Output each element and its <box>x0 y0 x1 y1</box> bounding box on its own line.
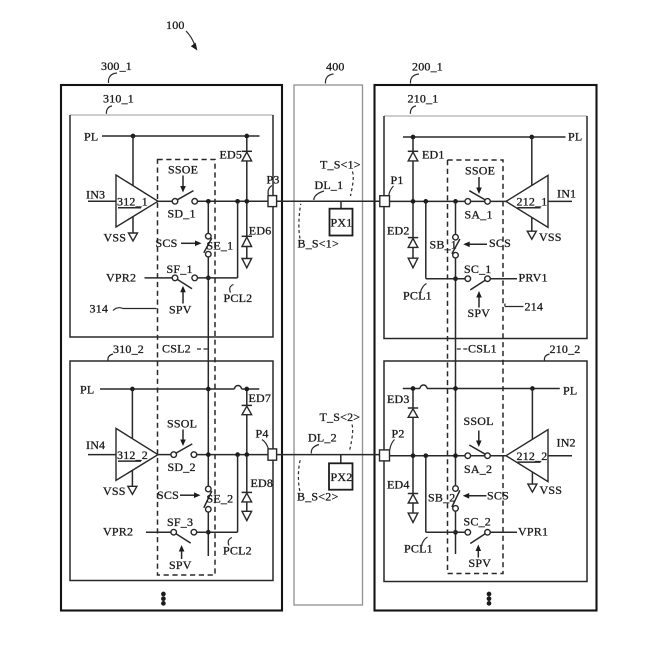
svg-text:PCL1: PCL1 <box>403 288 432 302</box>
svg-text:SD_1: SD_1 <box>168 207 196 221</box>
svg-text:SSOL: SSOL <box>167 417 197 431</box>
wire amp output to SD_2 <box>158 454 171 456</box>
wire amp supply (212_2) <box>531 389 533 440</box>
svg-text:PCL2: PCL2 <box>224 291 253 305</box>
svg-text:300_1: 300_1 <box>101 59 132 73</box>
wire amp output to SD_1 <box>158 200 172 202</box>
diode ED1 <box>412 139 414 151</box>
wire VSS of 312_2 <box>131 470 133 486</box>
diode ED8 <box>246 457 248 492</box>
diode ED6 <box>246 204 248 237</box>
svg-text:DL_2: DL_2 <box>308 431 337 445</box>
svg-text:PX2: PX2 <box>331 470 353 484</box>
wire P1 to SA_1 <box>390 200 465 202</box>
wire IN4 input <box>88 454 116 456</box>
svg-text:SA_1: SA_1 <box>465 207 493 221</box>
op-amp 212_1 <box>506 175 548 227</box>
arrow SSOE to SD_1 <box>182 176 184 189</box>
svg-text:CSL1: CSL1 <box>468 342 497 356</box>
svg-text:IN4: IN4 <box>86 438 105 452</box>
switch SD_2 <box>171 452 177 458</box>
ground VSS (210_1) <box>527 231 536 239</box>
leader for 210_1 <box>410 106 416 114</box>
wire DL_2 <box>277 454 380 456</box>
svg-text:VSS: VSS <box>104 231 127 245</box>
ellipsis right <box>487 592 492 597</box>
terminal arrow below ED2 <box>408 258 418 268</box>
wire SD_2 to P4 <box>197 454 268 456</box>
svg-text:SB_1: SB_1 <box>430 238 457 252</box>
svg-text:PCL2: PCL2 <box>223 544 252 558</box>
wire amp 312_1 supply <box>132 136 134 186</box>
svg-text:310_2: 310_2 <box>113 342 144 356</box>
wire PCL1 to SC_1 <box>426 278 465 280</box>
switch SA_1 <box>465 199 471 205</box>
terminal arrow below ED6 <box>242 259 252 268</box>
svg-text:400: 400 <box>326 60 345 74</box>
svg-text:IN1: IN1 <box>557 186 576 200</box>
arrow SCS to SE_1 <box>181 242 197 244</box>
switch SC_2 <box>465 530 471 536</box>
svg-text:PX1: PX1 <box>331 216 353 230</box>
svg-text:312_1: 312_1 <box>117 195 148 209</box>
wire IN1 input <box>548 200 572 202</box>
svg-text:ED1: ED1 <box>422 147 445 161</box>
junction main/CSL1 <box>453 199 458 204</box>
wire PCL2 riser to main2 <box>237 455 239 532</box>
wire IN2 input <box>548 455 572 457</box>
arrow SCS to SB_1 <box>468 243 488 245</box>
svg-text:212_2: 212_2 <box>517 449 548 463</box>
label CSL1 <box>457 348 468 350</box>
leader for 200_1 <box>410 74 419 84</box>
arrow SSOE to SA_1 <box>478 177 480 190</box>
svg-text:T_S<2>: T_S<2> <box>320 410 361 424</box>
svg-text:SSOE: SSOE <box>465 164 495 178</box>
svg-text:310_1: 310_1 <box>103 92 134 106</box>
wire DL_1 <box>277 200 380 202</box>
junction main/PCL1 <box>423 199 428 204</box>
diode ED3 <box>412 391 414 408</box>
switch SF_3 <box>171 529 177 535</box>
svg-text:SF_3: SF_3 <box>167 515 193 529</box>
arrow SPV to SF_3 <box>181 549 183 559</box>
switch SE_1 <box>206 233 212 239</box>
op-amp 212_2 <box>506 430 548 482</box>
switch SF_1 <box>172 275 178 281</box>
svg-text:VSS: VSS <box>539 230 562 244</box>
svg-text:SSOL: SSOL <box>464 414 494 428</box>
wire PL (210_1) <box>403 136 566 138</box>
wire PL (310_2) with hop at x=238 <box>100 388 235 390</box>
leader for 210_2 <box>544 354 549 361</box>
svg-text:ED2: ED2 <box>387 223 410 237</box>
svg-text:SPV: SPV <box>169 303 192 317</box>
svg-text:SCS: SCS <box>487 489 509 503</box>
wire SA_1 to amp <box>471 200 506 202</box>
svg-text:SSOE: SSOE <box>168 163 198 177</box>
ellipsis left <box>161 592 166 597</box>
wire PX2 stem <box>340 455 342 464</box>
ground VSS (310_2) <box>128 486 137 494</box>
svg-text:VPR1: VPR1 <box>518 524 548 538</box>
svg-text:SPV: SPV <box>468 306 491 320</box>
svg-text:200_1: 200_1 <box>412 60 443 74</box>
op-amp 312_1 <box>116 175 158 227</box>
wire PX1 stem <box>340 201 342 208</box>
svg-text:ED3: ED3 <box>387 392 410 406</box>
svg-text:VSS: VSS <box>540 483 563 497</box>
outer box 300_1 <box>61 85 282 611</box>
svg-text:312_2: 312_2 <box>117 448 148 462</box>
wire PL (310_1) <box>102 135 260 137</box>
svg-text:P3: P3 <box>267 173 280 187</box>
arrow SSOL to SD_2 <box>182 430 184 442</box>
svg-text:SD_2: SD_2 <box>168 460 196 474</box>
svg-text:SE_2: SE_2 <box>207 491 234 505</box>
wire P2 to SA_2 <box>390 455 465 457</box>
pixel PX2 <box>329 463 353 489</box>
ground VSS (310_1) <box>129 233 138 241</box>
svg-text:DL_1: DL_1 <box>315 178 344 192</box>
svg-text:CSL2: CSL2 <box>162 342 191 356</box>
arrow SPV to SC_2 <box>477 549 479 558</box>
junction PL/ED7 <box>244 387 249 392</box>
junction CSL1/SC_2 row <box>453 530 458 535</box>
svg-text:SCS: SCS <box>157 488 179 502</box>
svg-text:ED7: ED7 <box>249 391 272 405</box>
svg-text:P4: P4 <box>256 426 269 440</box>
svg-text:VPR2: VPR2 <box>106 270 136 284</box>
svg-text:VSS: VSS <box>103 484 126 498</box>
arrow SSOL to SA_2 <box>478 431 480 443</box>
svg-text:SCS: SCS <box>489 236 511 250</box>
svg-text:SB_2: SB_2 <box>428 491 455 505</box>
switch SE_2 <box>206 486 212 492</box>
switch SD_1 <box>172 199 178 205</box>
svg-text:214: 214 <box>525 300 544 314</box>
pixel PX1 <box>330 209 353 236</box>
ground VSS (210_2) <box>528 484 537 492</box>
terminal arrow below ED8 <box>242 511 252 520</box>
junction PL/amp supply (210_2) <box>530 386 535 391</box>
panel column 400 <box>294 85 363 605</box>
junction PL/CSL1 <box>453 386 458 391</box>
svg-text:T_S<1>: T_S<1> <box>320 157 361 171</box>
arrow SCS to SB_2 <box>467 495 487 497</box>
switch SA_2 <box>465 453 471 459</box>
wire PL (210_2) with hop at x=423.5 <box>403 388 420 390</box>
svg-text:P2: P2 <box>392 427 405 441</box>
junction main/ED1-ED2 <box>411 199 416 204</box>
svg-text:210_2: 210_2 <box>550 342 581 356</box>
svg-text:PL: PL <box>563 384 577 398</box>
svg-text:VPR2: VPR2 <box>103 525 133 539</box>
svg-text:PRV1: PRV1 <box>519 271 548 285</box>
junction CSL1/SC_1 row <box>453 276 458 281</box>
svg-text:PL: PL <box>84 130 98 144</box>
switch SB_1 <box>453 234 459 240</box>
svg-text:IN2: IN2 <box>557 436 576 450</box>
svg-text:ED6: ED6 <box>249 224 272 238</box>
leader for 400 <box>325 74 333 84</box>
wire amp 312_2 supply <box>131 389 133 439</box>
junction PL/amp supply (310_2) <box>130 387 135 392</box>
wire CSL1 vertical (mid, down into 210_2) <box>455 258 457 486</box>
junction CSL2/SF_1 row <box>206 276 211 281</box>
outer box 200_1 <box>375 85 597 611</box>
wire VPR2 to SF_1 <box>145 277 173 279</box>
svg-text:100: 100 <box>166 18 185 32</box>
junction main2/PCL1 <box>423 453 428 458</box>
wire amp supply (212_1) <box>531 137 533 185</box>
svg-text:SCS: SCS <box>156 236 178 250</box>
svg-text:SPV: SPV <box>469 556 492 570</box>
junction main/ED5-ED6 <box>244 199 249 204</box>
svg-text:SC_2: SC_2 <box>464 514 491 528</box>
diode ED2 <box>412 204 414 238</box>
dashed switch group box left (314) <box>158 160 216 576</box>
svg-text:B_S<1>: B_S<1> <box>298 236 339 250</box>
junction PL/CSL2 <box>206 387 211 392</box>
wire PCL1 to SC_2 <box>426 531 465 533</box>
wire SF_3 to PCL2 riser <box>197 531 238 533</box>
wire SA_2 to amp <box>471 455 506 457</box>
junction main2/PCL2 <box>235 452 240 457</box>
svg-text:SF_1: SF_1 <box>167 262 193 276</box>
junction main2/ED3-ED4 <box>411 453 416 458</box>
label 214 <box>505 304 524 307</box>
junction main2/CSL2 <box>206 452 211 457</box>
svg-text:PL: PL <box>568 130 582 144</box>
wire VSS of 312_1 <box>132 216 134 233</box>
svg-text:IN3: IN3 <box>86 188 105 202</box>
arrow SPV to SF_1 <box>182 290 184 304</box>
junction CSL2/SF_3 row <box>206 530 211 535</box>
wire PCL1 riser <box>425 201 427 278</box>
junction PL/ED3 <box>411 386 416 391</box>
wire CSL2 vertical (lower) <box>207 512 209 556</box>
wire IN3 input <box>88 200 116 202</box>
svg-text:PCL1: PCL1 <box>404 542 433 556</box>
svg-text:P1: P1 <box>391 173 404 187</box>
svg-text:SA_2: SA_2 <box>464 462 492 476</box>
wire SD_1 to P3 <box>198 200 269 202</box>
junction PL/amp supply <box>131 134 136 139</box>
dashed switch group box right (214) <box>448 160 504 574</box>
diode ED4 <box>412 458 414 494</box>
junction PL/ED1 <box>411 135 416 140</box>
junction main/PCL2 <box>235 199 240 204</box>
svg-text:212_1: 212_1 <box>517 195 548 209</box>
svg-text:ED4: ED4 <box>387 478 410 492</box>
wire CSL1 vertical (lower) <box>455 511 457 554</box>
wire VSS of 212_1 <box>531 217 533 231</box>
leader for 310_1 <box>106 106 112 114</box>
leader for 300_1 <box>108 73 117 83</box>
svg-text:B_S<2>: B_S<2> <box>297 489 338 503</box>
op-amp 312_2 <box>116 428 158 480</box>
wire PCL2 riser to main <box>237 202 239 278</box>
diode ED7 <box>246 391 248 405</box>
diode ED5 <box>246 138 248 151</box>
junction PL/amp supply (210_1) <box>529 135 534 140</box>
junction main/CSL2 <box>206 199 211 204</box>
switch SC_1 <box>465 276 471 282</box>
svg-text:SE_1: SE_1 <box>207 239 234 253</box>
wire VSS of 212_2 <box>531 472 533 484</box>
svg-text:210_1: 210_1 <box>408 92 439 106</box>
svg-text:SPV: SPV <box>169 558 192 572</box>
wire SF_1 to PCL2 riser <box>198 277 238 279</box>
leader arrow for 100 <box>186 31 195 45</box>
wire PCL1 riser (210_2) <box>425 456 427 533</box>
junction main2/CSL1 <box>453 453 458 458</box>
inner box 310_1 (gray top edge) <box>70 114 273 116</box>
wire CSL2 vertical (upper) <box>207 201 209 233</box>
wire SC_2 to VPR1 <box>490 531 517 533</box>
wire SC_1 to PRV1 <box>490 278 517 280</box>
inner box 210_2 <box>384 361 587 582</box>
svg-text:PL: PL <box>80 383 94 397</box>
inner box 310_2 <box>70 361 273 581</box>
terminal arrow below ED4 <box>408 513 418 522</box>
arrow SPV to SC_1 <box>478 295 480 308</box>
leader for 310_2 <box>108 354 113 361</box>
svg-text:ED8: ED8 <box>251 476 274 490</box>
switch SB_2 <box>453 486 459 492</box>
svg-text:314: 314 <box>90 302 109 316</box>
svg-text:SC_1: SC_1 <box>464 262 491 276</box>
wire VPR2 to SF_3 <box>146 531 171 533</box>
svg-text:ED5: ED5 <box>220 147 243 161</box>
junction PL/ED5 <box>244 134 249 139</box>
arrow SCS to SE_2 <box>180 494 196 496</box>
wire CSL2 vertical (mid, through SF_1 row down into 310_2) <box>207 257 209 486</box>
junction main2/ED7-ED8 <box>244 452 249 457</box>
inner box 210_1 (gray top edge) <box>384 115 587 117</box>
wire CSL1 vertical (upper) <box>455 201 457 234</box>
